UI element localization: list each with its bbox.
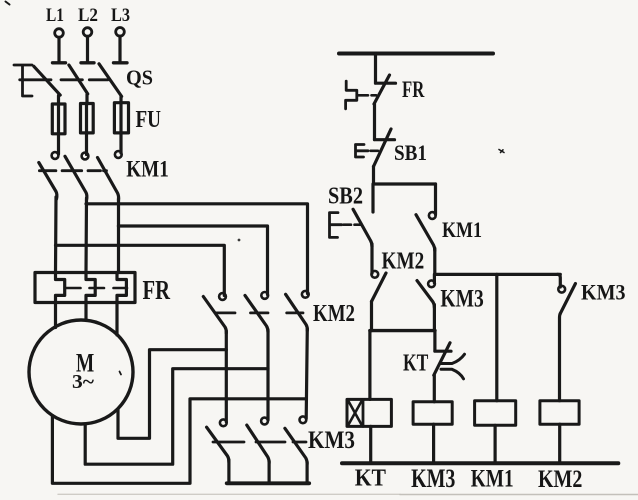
- svg-text:QS: QS: [126, 66, 153, 90]
- svg-text:SB2: SB2: [328, 184, 363, 210]
- svg-text:KM2: KM2: [313, 301, 355, 327]
- svg-text:KM1: KM1: [126, 157, 169, 182]
- svg-text:FU: FU: [136, 107, 162, 133]
- svg-text:KM1: KM1: [442, 217, 482, 242]
- svg-text:L2: L2: [78, 5, 98, 26]
- svg-text:3~: 3~: [72, 371, 95, 393]
- svg-text:L1: L1: [46, 5, 64, 26]
- svg-text:KM3: KM3: [411, 464, 455, 493]
- svg-text:KM2: KM2: [382, 249, 425, 275]
- svg-text:FR: FR: [143, 275, 171, 305]
- svg-text:FR: FR: [402, 77, 425, 102]
- svg-text:KM3: KM3: [581, 280, 626, 305]
- svg-text:L3: L3: [111, 5, 130, 26]
- svg-text:KM1: KM1: [471, 465, 514, 492]
- svg-text:KM3: KM3: [440, 286, 483, 313]
- svg-text:KT: KT: [355, 466, 386, 492]
- svg-text:SB1: SB1: [394, 140, 427, 165]
- svg-text:KT: KT: [403, 351, 428, 377]
- svg-text:KM2: KM2: [538, 464, 582, 493]
- svg-text:KM3: KM3: [308, 427, 355, 454]
